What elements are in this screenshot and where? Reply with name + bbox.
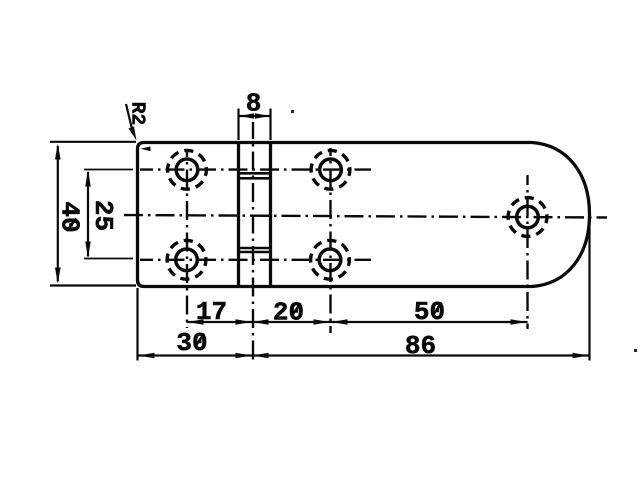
plate outline xyxy=(138,143,590,287)
centerline barrel vertical xyxy=(252,122,254,360)
arrow 30 left xyxy=(139,353,155,359)
hole H5 circle xyxy=(517,206,539,228)
leader line R2 xyxy=(126,104,133,133)
arrows at column2 row1 xyxy=(314,319,330,325)
speck noise 2 xyxy=(634,349,637,352)
slash of zero in 30 xyxy=(195,334,204,348)
arrows at barrel center row1 xyxy=(236,319,252,325)
hole H1 dashed circle xyxy=(168,150,207,189)
arrow 8 left xyxy=(240,113,255,119)
svg-text:30: 30 xyxy=(176,328,207,358)
dimension line row2 30-86 xyxy=(138,354,590,356)
dimension line row1 17-20-50 xyxy=(187,321,528,323)
leader arrow R2 xyxy=(129,127,137,141)
hole H1 circle xyxy=(176,159,198,181)
svg-text:50: 50 xyxy=(414,297,445,327)
arrow 25 up xyxy=(85,171,91,187)
arrow 86 right xyxy=(573,353,589,359)
arrow 25 down xyxy=(85,242,91,258)
centerline column 1 vertical xyxy=(186,149,188,328)
knuckle gap lower pair xyxy=(237,247,272,250)
slash of zero in 40 (rotated) xyxy=(67,219,77,232)
extension line 25 bottom xyxy=(84,258,133,260)
extension line 40 bottom xyxy=(50,284,136,286)
centerline top row xyxy=(140,168,371,170)
svg-text:25: 25 xyxy=(88,200,118,231)
barrel left line xyxy=(237,143,240,287)
extension line right end xyxy=(588,219,590,361)
extension line 8 left xyxy=(237,109,239,141)
hole H3 dashed circle xyxy=(167,240,206,279)
arrows at barrel center row2 xyxy=(236,353,252,359)
centerline column 2 vertical xyxy=(329,148,331,333)
centerline hole H5 vertical xyxy=(526,175,528,329)
hole H2 dashed circle xyxy=(311,150,350,189)
centerline main horizontal xyxy=(124,215,607,218)
svg-text:86: 86 xyxy=(405,331,436,361)
extension line left edge below xyxy=(136,288,138,361)
dimension line 8 xyxy=(239,115,271,117)
arrow 8 right xyxy=(255,113,270,119)
arrow 40 up xyxy=(55,144,61,160)
centerline bottom row xyxy=(140,259,371,261)
extension line 8 right xyxy=(269,109,271,141)
hole H3 circle xyxy=(176,249,198,271)
svg-text:17: 17 xyxy=(196,297,227,327)
slash of zero in 50 xyxy=(433,303,442,317)
arrow 50 right xyxy=(511,319,527,325)
extension line 25 top xyxy=(84,169,133,171)
hole H2 circle xyxy=(320,159,342,181)
arrow 40 down xyxy=(55,268,61,284)
barrel right line xyxy=(269,143,272,287)
hole H4 circle xyxy=(319,249,341,271)
svg-text:8: 8 xyxy=(246,89,262,119)
dimension line 40 xyxy=(57,146,59,282)
hole H4 dashed circle xyxy=(311,240,350,279)
knuckle gap upper pair xyxy=(237,172,272,175)
svg-text:R2: R2 xyxy=(127,102,149,125)
arrow 17 left xyxy=(188,319,204,325)
hole H5 dashed circle xyxy=(508,198,547,237)
small radius arrow inside corner xyxy=(141,146,151,151)
speck noise 1 xyxy=(291,110,294,113)
extension line 40 top xyxy=(50,141,136,143)
slash of zero in 20 xyxy=(292,303,301,317)
svg-text:20: 20 xyxy=(273,298,304,328)
dimension line 25 xyxy=(87,172,89,257)
